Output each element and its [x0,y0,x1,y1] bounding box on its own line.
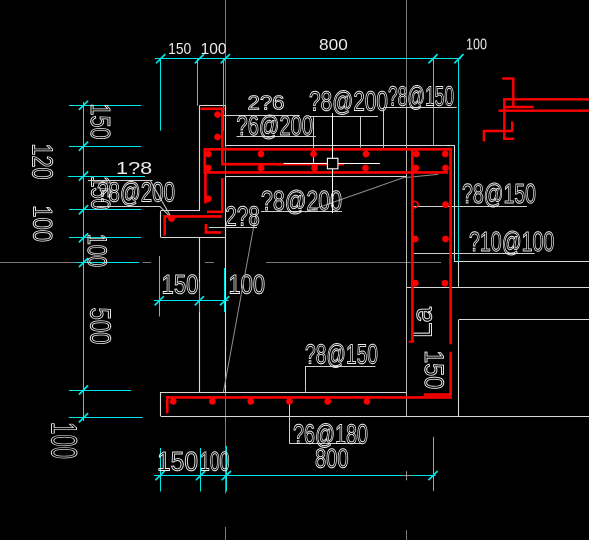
roof slab top face [225,145,455,147]
top dim text 100 [201,41,227,58]
top dimension line with ticks and extension lines [155,54,464,262]
right step horizontal [459,319,589,321]
roof slab bottom bar [204,171,448,174]
svg-text:?6@200: ?6@200 [237,110,314,141]
right wall outer bar lower with anchorage [449,352,452,396]
label ?8@200 top leader [313,116,315,167]
left dim text 100 [82,234,112,267]
svg-text:?8@150: ?8@150 [388,81,454,112]
label 2?8 underline [209,227,257,229]
base slab left edge [160,392,162,416]
bottom dim text 800 [315,444,349,474]
wall bar bottom hook [205,224,221,233]
roof slab top row dots [205,151,449,158]
corbel top face [161,210,200,212]
mid dim text 100 [229,270,266,300]
label ?10@100 underline [414,253,535,255]
left dim text 150 upper [85,104,116,140]
base slab main bar [166,396,452,399]
svg-text:2?8: 2?8 [225,201,260,232]
top dim text 150 [168,41,192,58]
left dim text 500 [84,308,116,345]
upstand (wall top) cap line [199,105,225,107]
base slab bar left hook [166,396,169,413]
right wall inner bar [409,149,415,343]
adjacent detail slab top bar [503,98,589,100]
right ground line upper [454,261,589,263]
upstand outer bar with slab anchorage [222,108,344,165]
svg-text:La: La [406,307,437,338]
label ?8@150 bottom leader [305,366,307,392]
label 150 rotated [419,350,449,389]
label ?6@180 [293,419,368,450]
label 1?8 underline [88,180,153,182]
label ?6@200 underline [237,136,316,138]
label ?8@150 right underline [414,206,527,208]
point marker cross [402,471,411,480]
upstand bar dots [214,111,221,140]
top dim text 800 [319,37,348,54]
svg-text:?8@200: ?8@200 [261,185,342,216]
svg-text:1?8: 1?8 [116,158,152,178]
right wall outer bar upper [449,148,452,344]
wall stirrup dot open circle [412,201,418,207]
svg-text:150: 150 [85,104,116,140]
construction joint line [407,287,589,289]
corbel bottom joint line [161,237,225,239]
wall dots row3 [412,280,448,287]
label ?8@150 bottom underline [306,366,376,368]
label ?8@150 top leader [383,108,385,148]
left dim text 150 mid [85,176,115,210]
hook bar at corbel [207,178,224,212]
adjacent detail bottom bar [503,138,514,140]
crosshair cursor [284,113,380,213]
label ?6@180 underline [290,443,362,445]
svg-text:?8@150: ?8@150 [462,178,536,209]
label 1?8 [116,158,152,178]
left wall outer face upper [199,106,201,211]
roof slab top bar [204,148,453,151]
upstand top bar [201,108,225,111]
base slab distribution bar dots [170,398,371,405]
label 2?8 [225,201,260,232]
svg-text:?8@200: ?8@200 [97,177,175,208]
left wall outer bar [204,172,207,204]
grid axis vertical centerline x=225.5 [225,0,227,540]
adjacent detail hook top [502,78,514,108]
svg-text:150: 150 [162,270,199,300]
label 1?8 leader [151,181,172,218]
svg-text:100: 100 [466,37,487,54]
horizontal centerline y=262.3 dashed segments [0,262,441,264]
bottom dim text 150 [157,447,198,477]
label ?8@200 left underline [97,206,160,208]
svg-text:100: 100 [82,234,112,267]
mid dimension line 150/100 with ticks [154,256,229,317]
left outer dim text 100 [27,205,57,242]
left wall inner face upper [225,106,227,146]
svg-text:?8@150: ?8@150 [305,339,378,370]
label ?6@180 leader [289,401,291,443]
svg-text:120: 120 [25,144,57,180]
wall dots row2 [412,236,449,243]
right wall inner face [454,146,456,261]
left wall inner face lower [225,177,227,393]
svg-text:100: 100 [201,41,227,58]
label ?8@150 right [462,178,536,209]
adjacent detail short bar [506,106,534,108]
label ?8@200 top [309,86,388,117]
label 2?6 leader [222,115,300,117]
roof slab left stirrup end [204,148,207,173]
svg-text:150: 150 [419,350,449,389]
svg-text:?8@200: ?8@200 [309,86,388,117]
left outer dim text 120 [25,144,57,180]
mid dim text 150 [162,270,199,300]
svg-text:500: 500 [84,308,116,345]
bottom dim text 100 [200,447,230,477]
corbel bar [164,215,223,235]
corbel bar cross-section dot [168,215,175,222]
label ?8@150 bottom [305,339,378,370]
leader diagonal to base slab [223,214,256,392]
adjacent detail slab mid bar [499,109,589,111]
roof slab bottom row dots [205,165,449,172]
label ?8@150 top [388,81,454,112]
top dim text 100 right [466,37,487,54]
roof slab soffit [225,176,406,178]
svg-text:?6@180: ?6@180 [293,419,368,450]
svg-text:800: 800 [319,37,348,54]
svg-text:150: 150 [168,41,192,58]
svg-text:150: 150 [157,447,198,477]
svg-text:100: 100 [27,205,57,242]
label ?6@200 [237,110,314,141]
svg-text:100: 100 [200,447,230,477]
base slab bottom face [161,416,589,418]
adjacent detail stirrup vertical [503,98,505,140]
label La rotated [406,307,437,338]
adjacent detail small hook [483,121,514,141]
label 2?6 [248,92,285,114]
svg-text:100: 100 [229,270,266,300]
label ?8@150 top underline [383,107,456,109]
right step vertical lower [458,320,460,417]
right step vertical upper [458,261,460,286]
label ?8@200 top underline [309,116,378,118]
corbel left face [160,211,162,237]
wall dots row1 [442,201,449,208]
label ?10@100 [469,226,554,257]
base slab top face [160,392,407,394]
label ?8@200 mid [261,185,342,216]
label ?8@200 mid underline [261,211,342,213]
label ?8@200 left [97,177,175,208]
label ?8@200 left leader [160,207,172,219]
label ?8@200 top leader 2 [360,116,362,147]
bottom dimension line with ticks and extension lines [154,437,438,492]
right wall outer bar hook [424,393,452,396]
leader diagonal to slab corner [305,174,438,212]
svg-text:100: 100 [44,422,85,459]
left dimension chain with ticks and extension lines [68,101,145,423]
left bottom dim text 100 [44,422,85,459]
left wall bar cross-section dot [205,195,212,202]
grid axis vertical centerline x=406.3 [406,0,408,540]
svg-text:?10@100: ?10@100 [469,226,554,257]
left wall outer face lower [199,237,201,392]
right wall outer face [406,108,408,417]
